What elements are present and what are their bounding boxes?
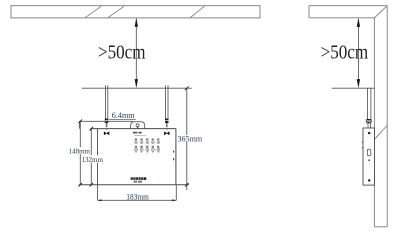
label 132mm — [81, 155, 103, 162]
arrowhead up front — [135, 18, 138, 27]
label 148mm — [68, 147, 90, 154]
mounting plate top line — [80, 120, 133, 122]
dim 365mm tick bottom — [185, 183, 189, 187]
clearance dimension line front — [135, 19, 137, 86]
hanger stem side — [367, 123, 369, 128]
nameplate text line 2 — [134, 181, 142, 183]
keyhole circle — [136, 124, 139, 127]
device left edge — [97, 129, 99, 185]
nameplate text line 1 — [131, 177, 147, 180]
dim 365mm tick top — [185, 86, 189, 90]
dim 148mm line — [79, 121, 81, 184]
device side view body — [363, 128, 375, 185]
dim 132mm tick top — [90, 127, 94, 131]
right hanger stem — [166, 123, 167, 127]
dim 183mm extension left — [97, 185, 99, 201]
mounting rail line front — [82, 87, 192, 89]
left hanger bowtie bolt — [104, 131, 107, 135]
device top edge left corner tick — [90, 129, 92, 131]
ceiling side view — [309, 6, 387, 18]
ceiling hatch 2 — [108, 6, 124, 17]
clearance dimension line side — [357, 19, 359, 86]
right hanger orange speck — [166, 129, 167, 130]
device side left edge tick 1 — [362, 142, 363, 143]
device side top screw — [368, 132, 370, 134]
device side left edge tick 2 — [362, 147, 363, 148]
device right edge — [175, 129, 177, 185]
right edge tick 2 — [173, 158, 174, 160]
svg-text:365mm: 365mm — [178, 134, 203, 143]
right hanger nut — [165, 119, 169, 124]
device side bottom screw — [368, 179, 370, 181]
device side dash — [368, 160, 370, 161]
left hanger rod — [104, 85, 106, 119]
left hanger nut — [105, 119, 109, 124]
dim 148mm tick top — [79, 120, 83, 124]
dim 132mm tick bottom — [90, 183, 94, 187]
leader underline 6.4mm — [109, 118, 136, 120]
device side slot — [367, 149, 370, 156]
right edge tick 1 — [173, 151, 174, 153]
mounting rail line side — [332, 87, 375, 89]
hanger bolt side — [366, 119, 372, 123]
arrowhead down front — [135, 79, 138, 88]
dim 132mm line — [90, 129, 92, 185]
right hanger rod — [165, 85, 167, 119]
svg-text:>50cm: >50cm — [321, 41, 369, 63]
dim 183mm arrow left — [98, 199, 102, 201]
left hanger stem — [106, 123, 107, 127]
ceiling front view bar — [11, 6, 260, 18]
wall hatch — [375, 125, 387, 138]
device top edge — [91, 128, 176, 130]
svg-text:132mm: 132mm — [82, 155, 103, 164]
keyhole slot — [137, 127, 139, 129]
dome keyhole boss — [131, 122, 145, 129]
hanger rod side — [367, 88, 369, 119]
dim 183mm line — [98, 199, 177, 201]
arrowhead up side — [357, 18, 360, 27]
tiny label under dome — [133, 132, 137, 134]
dim 183mm arrow right — [172, 199, 176, 201]
faint port row label — [134, 134, 146, 137]
svg-text:183mm: 183mm — [126, 193, 149, 202]
dim 365mm line — [186, 88, 188, 135]
device bottom edge — [79, 184, 189, 186]
dim 148mm tick bottom — [79, 183, 83, 187]
ceiling hatch 1 — [86, 6, 102, 17]
svg-text:6.4mm: 6.4mm — [112, 111, 136, 120]
svg-text:>50cm: >50cm — [98, 41, 146, 63]
right hanger bowtie bolt — [164, 131, 167, 135]
dim 183mm extension right — [175, 185, 177, 201]
left hanger orange speck — [106, 129, 107, 130]
mounting plate left edge — [79, 121, 81, 128]
port row 1 — [135, 139, 160, 144]
ceiling hatch 3 — [191, 6, 205, 17]
wall side view — [374, 6, 387, 227]
arrowhead down side — [357, 79, 360, 88]
port row 2 — [135, 146, 160, 153]
